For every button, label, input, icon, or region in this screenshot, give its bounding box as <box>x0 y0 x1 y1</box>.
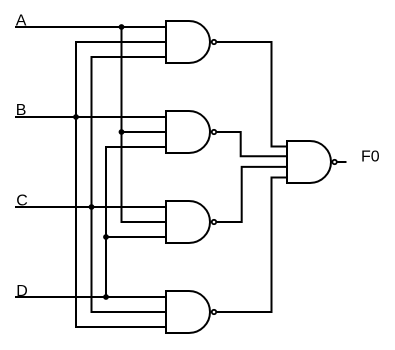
svg-text:B: B <box>16 102 27 119</box>
svg-text:F0: F0 <box>361 149 380 166</box>
svg-text:C: C <box>16 193 28 210</box>
svg-text:D: D <box>16 283 28 300</box>
svg-text:A: A <box>16 13 27 30</box>
